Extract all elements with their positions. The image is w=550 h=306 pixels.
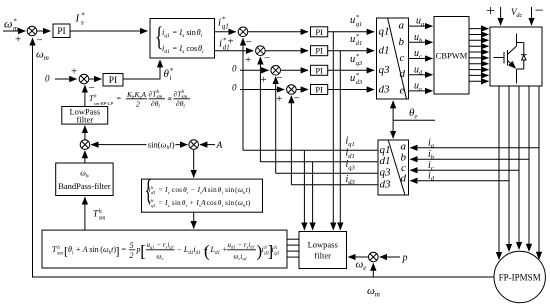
svg-text:q1: q1 [274, 252, 279, 257]
svg-text:T: T [52, 245, 57, 254]
svg-text:filter: filter [314, 251, 331, 261]
svg-text:∝: ∝ [167, 94, 173, 103]
svg-text:−: − [277, 72, 283, 84]
svg-text:a: a [399, 20, 405, 32]
svg-text:(: ( [204, 242, 210, 261]
svg-text:c: c [400, 52, 405, 64]
svg-text:i: i [219, 38, 222, 50]
svg-text:d1: d1 [356, 40, 363, 47]
svg-text:]: ] [116, 244, 120, 258]
svg-text:i: i [170, 74, 172, 82]
svg-text:i: i [218, 17, 221, 29]
svg-text:PI: PI [57, 27, 65, 37]
svg-text:sin(ωht): sin(ωht) [148, 140, 175, 152]
svg-text:q1: q1 [379, 26, 390, 38]
svg-text:u: u [350, 34, 355, 45]
svg-text:+: + [261, 74, 267, 86]
svg-text:q1: q1 [356, 21, 363, 28]
svg-text:2: 2 [130, 251, 134, 260]
svg-text:CBPWM: CBPWM [436, 51, 468, 61]
svg-text:p: p [402, 252, 408, 263]
svg-text:0: 0 [232, 83, 237, 93]
svg-text:= Is cos θi − IsA sin θi sin (: = Is cos θi − IsA sin θi sin (ωht) [158, 186, 251, 195]
svg-text:d3: d3 [379, 84, 391, 96]
svg-text:+: + [71, 66, 77, 78]
svg-text:e: e [400, 84, 405, 96]
svg-text:0: 0 [232, 64, 237, 74]
svg-text:d3: d3 [380, 178, 392, 190]
svg-text:0: 0 [45, 74, 50, 84]
svg-text:q1: q1 [380, 144, 391, 156]
svg-text:BandPass-filter: BandPass-filter [58, 181, 111, 191]
svg-text:+: + [276, 93, 282, 105]
svg-text:d1: d1 [380, 155, 391, 167]
svg-text:d1: d1 [379, 45, 390, 57]
svg-text:d: d [400, 68, 406, 80]
svg-text:b: b [399, 36, 405, 48]
svg-text:= Is sin θi + IsA cos θi sin (: = Is sin θi + IsA cos θi sin (ωht) [158, 199, 251, 208]
svg-text:+: + [228, 36, 234, 48]
svg-text:−: − [294, 93, 300, 105]
svg-text:u: u [350, 54, 355, 65]
svg-text:+: + [15, 34, 21, 46]
svg-text:sm: sm [99, 216, 106, 222]
svg-text:5: 5 [130, 241, 134, 250]
svg-text:PI: PI [315, 65, 323, 75]
svg-text:q3: q3 [379, 64, 391, 76]
svg-text:d1: d1 [151, 190, 156, 195]
svg-text:q1: q1 [151, 203, 156, 208]
svg-text:Lowpass: Lowpass [308, 240, 338, 250]
svg-text:u: u [350, 15, 355, 26]
svg-text:q1: q1 [222, 23, 229, 31]
svg-text:−: − [89, 82, 95, 94]
svg-text:−: − [37, 35, 43, 47]
svg-text:m: m [13, 25, 18, 33]
svg-text:d3: d3 [356, 79, 363, 86]
svg-text:q3: q3 [356, 60, 363, 67]
svg-text:PI: PI [315, 46, 323, 56]
svg-text:u: u [350, 73, 355, 84]
svg-text:[: [ [140, 242, 146, 261]
svg-text:q3: q3 [380, 167, 392, 179]
svg-text:filter: filter [77, 115, 94, 125]
svg-text:FP-IPMSM: FP-IPMSM [499, 273, 541, 283]
svg-text:−: − [246, 36, 252, 48]
svg-text:PI: PI [109, 76, 117, 86]
svg-text:PI: PI [315, 27, 323, 37]
svg-text:sm-BP-LP: sm-BP-LP [94, 101, 113, 106]
svg-text:+: + [486, 3, 495, 20]
svg-text:sm: sm [57, 252, 63, 257]
svg-text:d: d [401, 172, 407, 184]
svg-text:=: = [121, 245, 126, 254]
svg-text:+: + [245, 54, 251, 66]
svg-text:2: 2 [136, 100, 140, 109]
svg-text:−: − [535, 3, 544, 20]
svg-text:A: A [216, 141, 223, 151]
svg-text:h: h [99, 209, 102, 215]
svg-text:−: − [264, 53, 270, 65]
svg-text:s: s [81, 19, 84, 27]
svg-text:PI: PI [315, 85, 323, 95]
svg-text:ω: ω [4, 17, 12, 31]
svg-text:=: = [116, 94, 121, 103]
